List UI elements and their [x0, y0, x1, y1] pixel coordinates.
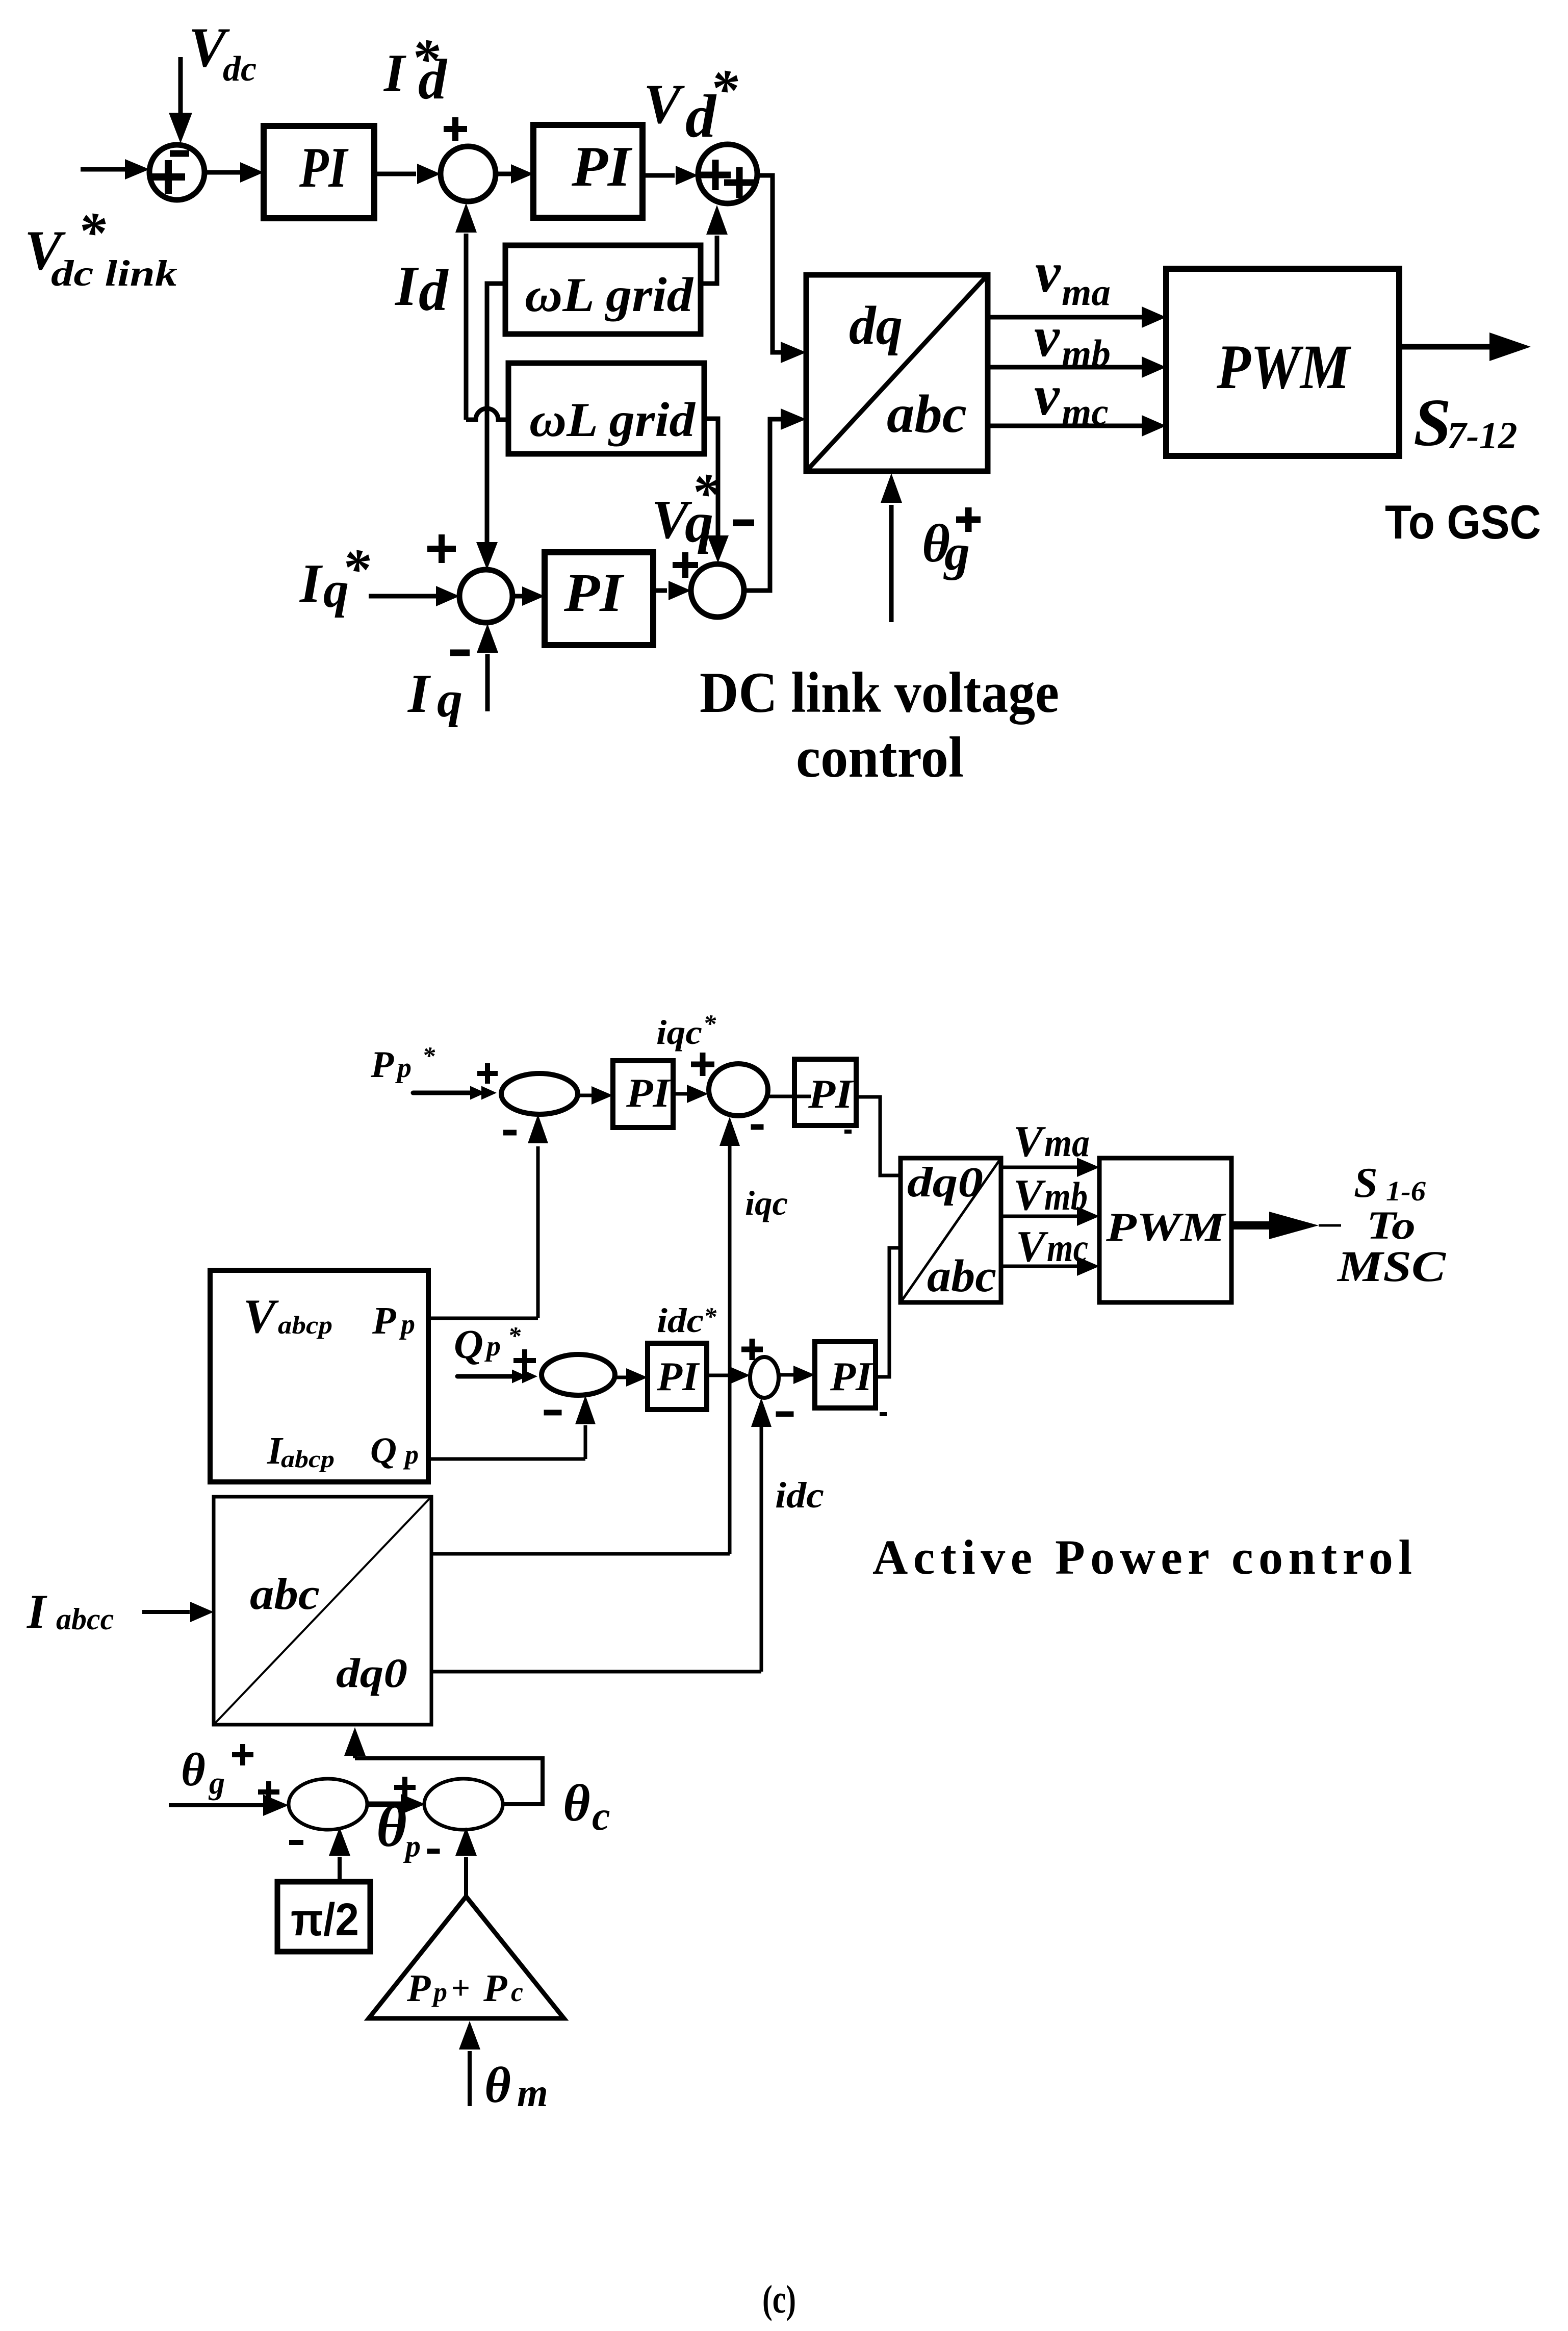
svg-text:p: p — [403, 1439, 419, 1470]
wire Iq-star input into S4 — [369, 594, 436, 599]
svg-text:p: p — [484, 1330, 501, 1362]
svg-text:+: + — [451, 1969, 470, 2007]
svg-text:iqc: iqc — [745, 1184, 788, 1222]
E7 minus sign — [427, 1849, 440, 1854]
summing junction E7 — [424, 1779, 503, 1830]
svg-text:idc: idc — [775, 1475, 824, 1516]
svg-text:PI: PI — [563, 563, 625, 623]
wire B3 to S5 — [653, 588, 667, 593]
svg-text:V: V — [243, 1289, 279, 1343]
svg-text:dq0: dq0 — [907, 1159, 983, 1206]
wire S4 to PI block B3 — [512, 594, 522, 599]
wire Iq feedback into S4 — [485, 654, 490, 711]
wire theta-c feedback into abc/dq0 block — [355, 1758, 543, 1804]
wire Pp-star input arrow into E1 — [413, 1091, 475, 1095]
E6 plus sign — [258, 1781, 279, 1803]
block dq/abc transform — [806, 275, 988, 471]
block omega-L-grid 2 — [508, 363, 704, 454]
svg-text:I: I — [407, 663, 431, 724]
summing junction S1 — [149, 145, 204, 200]
E3 plus sign — [513, 1349, 536, 1372]
E4 minus sign — [776, 1412, 794, 1417]
svg-text:I: I — [299, 553, 323, 614]
svg-text:*: * — [422, 1041, 435, 1070]
svg-text:m: m — [517, 2070, 548, 2115]
wire E2 to PI P2 — [767, 1095, 811, 1098]
svg-text:v: v — [1034, 305, 1060, 369]
block P2 PI — [794, 1059, 856, 1125]
svg-text:ma: ma — [1044, 1120, 1090, 1165]
svg-text:*: * — [710, 58, 738, 120]
wire B2 to S3 — [642, 173, 675, 178]
svg-text:PI: PI — [571, 135, 633, 198]
svg-text:Active Power control: Active Power control — [872, 1530, 1412, 1584]
svg-text:mc: mc — [1047, 1225, 1088, 1270]
wire E6 to E7 — [367, 1802, 401, 1807]
svg-text:DC link voltage: DC link voltage — [700, 661, 1059, 725]
P2 minus sign — [844, 1130, 852, 1134]
svg-text:ωL grid: ωL grid — [525, 268, 694, 322]
svg-text:V: V — [1013, 1170, 1046, 1219]
S3 plus plus signs — [700, 160, 731, 190]
S5 plus sign — [673, 552, 698, 578]
wire theta-g input into E6 — [169, 1803, 263, 1807]
summing junction E6 — [289, 1779, 367, 1830]
E1 minus sign — [503, 1130, 517, 1136]
block power calculation Vabcp Iabcp Pp Qp — [210, 1270, 428, 1482]
wire Vdc input arrow into S1 — [178, 57, 183, 115]
svg-text:π/2: π/2 — [291, 1894, 359, 1945]
svg-text:c: c — [511, 1977, 523, 2007]
svg-text:PI: PI — [626, 1071, 672, 1116]
svg-text:v: v — [1035, 241, 1061, 304]
S1 minus sign — [170, 150, 189, 157]
summing junction S5 — [691, 564, 744, 617]
svg-text:I: I — [394, 255, 419, 318]
wire triangle to E7 — [464, 1857, 468, 1897]
svg-text:iqc: iqc — [656, 1013, 702, 1052]
svg-text:PI: PI — [656, 1354, 700, 1399]
E1 plus sign — [477, 1063, 498, 1084]
P4 minus sign — [880, 1412, 887, 1416]
svg-text:abc: abc — [250, 1570, 320, 1619]
wire Id feedback into S2 with hop — [464, 234, 469, 420]
svg-text:P: P — [483, 1967, 507, 2010]
svg-text:g: g — [943, 524, 970, 581]
svg-text:PI: PI — [808, 1072, 854, 1117]
S5 minus sign — [733, 520, 754, 526]
wire S5 to dq block input 2 — [744, 419, 782, 591]
svg-text:mb: mb — [1044, 1174, 1088, 1218]
svg-text:PI: PI — [299, 136, 349, 199]
wire Iabcc input — [142, 1610, 190, 1614]
svg-text:θ: θ — [376, 1794, 407, 1859]
wire P1 to E2 — [673, 1092, 687, 1096]
wire grid1 output to S3 — [701, 236, 717, 284]
svg-text:P: P — [406, 1967, 431, 2010]
svg-text:*: * — [342, 537, 370, 600]
block omega-L-grid 1 — [505, 245, 701, 334]
svg-text:v: v — [1034, 364, 1060, 427]
block P1 PI — [613, 1061, 673, 1128]
svg-text:abcp: abcp — [278, 1311, 332, 1339]
wire Pp feedback to E1 — [428, 1317, 538, 1320]
E2 plus sign — [691, 1053, 714, 1076]
svg-text:Q: Q — [370, 1430, 397, 1471]
svg-text:dc link: dc link — [51, 253, 177, 294]
wire vma output — [988, 315, 1143, 320]
svg-text:V: V — [1016, 1221, 1048, 1271]
svg-text:abcc: abcc — [56, 1602, 114, 1636]
svg-text:PI: PI — [830, 1354, 873, 1399]
svg-text:S: S — [1413, 385, 1451, 460]
wire B1 to S2 — [374, 172, 416, 176]
svg-text:mb: mb — [1062, 332, 1111, 375]
svg-text:abc: abc — [887, 384, 967, 444]
svg-text:d: d — [418, 48, 448, 111]
svg-text:c: c — [592, 1794, 610, 1839]
wire vmc output — [988, 424, 1143, 428]
svg-text:*: * — [691, 462, 719, 524]
E4 plus sign — [741, 1339, 763, 1360]
S4 plus sign — [427, 534, 456, 563]
svg-text:abc: abc — [927, 1251, 996, 1301]
wire P2 to dq0 block input 1 — [856, 1097, 901, 1175]
block gain triangle Pp+Pc — [369, 1897, 564, 2018]
svg-text:1-6: 1-6 — [1386, 1175, 1426, 1207]
wire grid2 output down to S5 — [704, 419, 718, 535]
block B1 PI — [264, 126, 374, 218]
svg-text:p: p — [395, 1052, 412, 1084]
summing junction E4 — [750, 1357, 779, 1398]
wire Qp-star input arrow into E3 — [457, 1374, 516, 1379]
wire Vdc-link input arrow into S1 — [81, 167, 125, 172]
wire S1 to PI block B1 — [204, 170, 241, 175]
svg-text:θ: θ — [484, 2057, 511, 2113]
svg-text:abcp: abcp — [281, 1446, 335, 1473]
summing junction E2 — [709, 1064, 768, 1116]
block PWM MSC — [1099, 1158, 1231, 1302]
svg-text:θ: θ — [563, 1774, 590, 1832]
svg-text:*: * — [704, 1302, 717, 1330]
svg-text:θ: θ — [181, 1744, 205, 1796]
wire vmb output — [988, 365, 1143, 370]
wire idc feedback into E4 — [760, 1427, 763, 1672]
wire P4 to dq0 block input 2 — [876, 1248, 901, 1377]
block P3 PI — [648, 1343, 707, 1410]
wire E3 to PI P3 — [615, 1376, 626, 1379]
wire E4 to PI P4 — [779, 1373, 793, 1377]
wire grid1 input branch down to S4 — [487, 284, 505, 543]
svg-text:mc: mc — [1062, 391, 1109, 433]
svg-text:dq0: dq0 — [336, 1650, 407, 1696]
svg-text:I: I — [383, 43, 406, 103]
summing junction E1 — [501, 1073, 578, 1114]
wire iqc feedback into E2 — [728, 1146, 732, 1554]
svg-text:V: V — [644, 73, 685, 135]
svg-text:(c): (c) — [762, 2277, 796, 2321]
block pi/2 — [277, 1882, 370, 1952]
svg-text:idc: idc — [657, 1301, 704, 1340]
svg-text:p: p — [431, 1977, 447, 2007]
svg-text:q: q — [437, 671, 462, 728]
wire P3 to E4 — [707, 1374, 729, 1377]
wire S2 to PI block B2 — [496, 172, 511, 176]
wire theta-m input into triangle — [468, 2051, 472, 2106]
svg-text:g: g — [208, 1766, 225, 1801]
wire S3 to dq block input 1 — [757, 175, 782, 352]
block dq0/abc transform — [901, 1158, 1001, 1302]
svg-text:P: P — [372, 1299, 396, 1342]
svg-text:*: * — [703, 1009, 716, 1038]
svg-text:control: control — [796, 726, 964, 789]
svg-text:MSC: MSC — [1336, 1242, 1447, 1291]
summing junction S4 — [459, 570, 512, 623]
svg-text:p: p — [399, 1309, 415, 1340]
svg-text:dc: dc — [223, 49, 256, 89]
svg-text:Q: Q — [454, 1322, 483, 1367]
svg-text:PWM: PWM — [1106, 1205, 1227, 1250]
svg-text:*: * — [508, 1321, 521, 1350]
summing junction S2 — [441, 146, 496, 201]
svg-text:S: S — [1354, 1159, 1378, 1207]
block abc/dq0 transform — [214, 1497, 431, 1725]
summing junction E3 — [542, 1354, 615, 1395]
svg-text:To GSC: To GSC — [1385, 495, 1541, 549]
svg-text:dq: dq — [849, 296, 903, 356]
E2 minus sign — [751, 1124, 764, 1130]
svg-text:p: p — [403, 1829, 421, 1863]
E6 minus sign — [289, 1840, 303, 1845]
wire Vma output — [1001, 1166, 1077, 1169]
S2 plus sign — [444, 117, 467, 141]
wire Vmb output — [1001, 1215, 1077, 1218]
E7 plus sign — [394, 1777, 416, 1798]
E3 minus sign — [544, 1410, 562, 1416]
wire Qp feedback into E3 — [428, 1457, 585, 1461]
S4 minus sign — [450, 650, 470, 656]
wire Vmc output — [1001, 1265, 1077, 1268]
wire theta-g input into dq block — [889, 505, 894, 622]
block B2 PI — [533, 125, 642, 218]
svg-text:I: I — [27, 1584, 47, 1638]
svg-text:PWM: PWM — [1216, 332, 1351, 402]
wire PWM output to GSC — [1399, 344, 1494, 350]
svg-text:7-12: 7-12 — [1447, 415, 1517, 457]
wire pi/2 to E6 — [338, 1857, 342, 1882]
wire PWM MSC output — [1231, 1221, 1272, 1229]
summing junction S3 — [698, 144, 757, 203]
block PWM GSC — [1166, 269, 1399, 456]
svg-text:d: d — [419, 258, 449, 323]
svg-text:P: P — [370, 1044, 394, 1086]
block B3 PI — [545, 552, 653, 645]
S1 plus sign — [151, 160, 185, 194]
svg-text:V: V — [1013, 1116, 1046, 1166]
wire E1 to PI P1 — [578, 1094, 592, 1097]
svg-text:To: To — [1367, 1203, 1416, 1247]
svg-text:ωL grid: ωL grid — [529, 393, 696, 447]
block P4 PI — [815, 1342, 876, 1408]
svg-text:ma: ma — [1062, 271, 1111, 314]
